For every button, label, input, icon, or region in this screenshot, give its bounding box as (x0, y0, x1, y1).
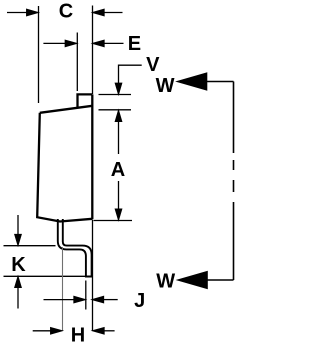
section line vertical (233, 82, 235, 281)
package body outline (37, 94, 92, 221)
lead (bent pin) (58, 219, 92, 277)
J left extension line (85, 281, 87, 310)
tick body bottom right (94, 220, 133, 222)
section arrow W top (178, 73, 234, 89)
dimension E extension line left (76, 33, 78, 92)
dimension V leader and arrow (115, 65, 141, 94)
svg-text:E: E (128, 33, 141, 55)
H left extension line (62, 247, 64, 331)
mounting tab (78, 94, 93, 107)
svg-text:A: A (111, 159, 125, 181)
dimension A arrows (115, 111, 121, 220)
K lower extension line (4, 275, 86, 277)
dimension C/E extension line right (92, 6, 94, 95)
dimension H arrows (33, 328, 115, 334)
dimension J arrows (44, 297, 118, 303)
dimension C extension line left (38, 6, 40, 103)
dimension C arrows (7, 9, 123, 15)
svg-text:C: C (59, 1, 73, 23)
dimension E arrows (43, 40, 123, 46)
tick body top right (99, 109, 132, 111)
svg-text:J: J (134, 290, 145, 312)
K upper extension line (4, 245, 56, 247)
svg-text:K: K (11, 254, 26, 276)
H/J right extension line (92, 220, 94, 332)
svg-text:W: W (156, 75, 175, 97)
section arrow W bottom (179, 272, 234, 288)
svg-text:H: H (71, 324, 85, 346)
svg-text:V: V (146, 54, 160, 76)
svg-text:W: W (156, 271, 175, 293)
tick tab top (99, 94, 132, 96)
dimension K arrows (15, 215, 21, 309)
